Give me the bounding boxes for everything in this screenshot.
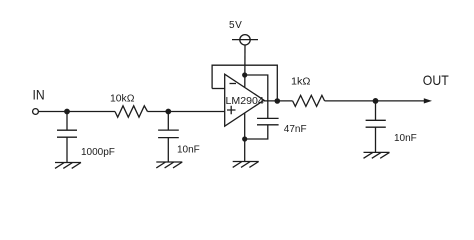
svg-text:LM2904: LM2904 bbox=[226, 96, 265, 107]
capacitor 47nF (bypass) bbox=[245, 118, 279, 139]
wire op-amp output to R2 bbox=[264, 100, 293, 102]
svg-text:10nF: 10nF bbox=[177, 145, 200, 156]
capacitor 10nF (output) bbox=[366, 101, 386, 152]
node ground junction bbox=[242, 136, 247, 141]
pin + (non-inverting input marker) bbox=[227, 106, 236, 114]
svg-text:1000pF: 1000pF bbox=[81, 147, 115, 158]
node input junction bbox=[64, 109, 70, 115]
svg-text:1kΩ: 1kΩ bbox=[291, 77, 311, 88]
capacitor 1000pF bbox=[57, 112, 77, 163]
pin - (inverting input marker) bbox=[230, 83, 237, 85]
op-amp U1 LM2904 bbox=[225, 74, 265, 126]
node supply junction bbox=[242, 72, 247, 77]
svg-text:IN: IN bbox=[33, 87, 45, 103]
power supply terminal 5V bbox=[232, 35, 258, 45]
resistor 1k bbox=[293, 95, 325, 106]
input terminal bbox=[33, 109, 39, 115]
node filter junction bbox=[165, 109, 171, 115]
wire 5V to op-amp V+ pin bbox=[244, 45, 246, 87]
svg-text:10nF: 10nF bbox=[394, 133, 417, 144]
ground (output cap) bbox=[364, 152, 390, 158]
ground (input filter cap) bbox=[156, 162, 182, 168]
wire R1 to op-amp + input bbox=[148, 111, 225, 113]
wire supply to bypass cap bbox=[245, 75, 268, 118]
svg-text:5V: 5V bbox=[229, 20, 242, 31]
wire R2 to output arrow bbox=[325, 100, 425, 102]
node output filter junction bbox=[373, 98, 379, 104]
resistor 10k bbox=[115, 106, 148, 117]
wire inverting input stub bbox=[212, 88, 225, 90]
svg-text:10kΩ: 10kΩ bbox=[110, 94, 135, 105]
capacitor 10nF (input) bbox=[158, 112, 179, 163]
ground (input cap) bbox=[55, 163, 81, 169]
wire feedback loop bbox=[212, 65, 277, 101]
output arrow bbox=[424, 98, 432, 103]
wire op-amp ground pin bbox=[244, 113, 246, 162]
node op-amp output bbox=[275, 98, 281, 104]
wire input to R1 bbox=[39, 111, 116, 113]
svg-text:OUT: OUT bbox=[423, 72, 449, 88]
svg-text:47nF: 47nF bbox=[284, 124, 307, 135]
ground (op-amp) bbox=[233, 162, 259, 168]
